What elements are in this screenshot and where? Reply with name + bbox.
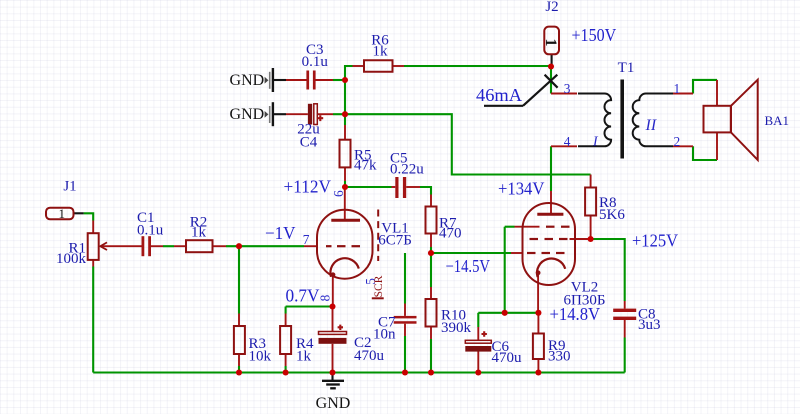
svg-text:330: 330 — [548, 348, 571, 364]
svg-text:II: II — [645, 117, 657, 134]
svg-text:+112V: +112V — [284, 177, 331, 197]
svg-text:SCR: SCR — [373, 275, 385, 297]
svg-text:T1: T1 — [618, 60, 635, 76]
svg-text:GND: GND — [230, 72, 265, 89]
svg-text:0.7V: 0.7V — [286, 286, 320, 306]
svg-text:1k: 1k — [373, 44, 389, 60]
svg-text:1: 1 — [59, 206, 66, 221]
svg-text:+134V: +134V — [498, 179, 544, 199]
svg-text:6: 6 — [331, 190, 346, 197]
svg-text:470: 470 — [439, 226, 462, 242]
svg-text:1: 1 — [674, 81, 681, 96]
svg-text:J2: J2 — [545, 0, 558, 15]
svg-text:6П30Б: 6П30Б — [564, 292, 606, 308]
svg-text:470u: 470u — [354, 348, 385, 364]
svg-text:+150V: +150V — [572, 25, 617, 45]
svg-text:10n: 10n — [373, 326, 396, 342]
svg-text:0.22u: 0.22u — [390, 161, 424, 177]
svg-text:J1: J1 — [63, 178, 76, 194]
svg-text:390k: 390k — [441, 320, 472, 336]
svg-text:47k: 47k — [354, 158, 377, 174]
svg-text:1k: 1k — [296, 349, 312, 365]
svg-text:4: 4 — [564, 134, 571, 149]
svg-text:C4: C4 — [300, 135, 318, 151]
svg-text:10k: 10k — [249, 349, 272, 365]
svg-text:2: 2 — [674, 134, 681, 149]
svg-text:46mA: 46mA — [476, 85, 522, 105]
svg-text:BA1: BA1 — [765, 113, 790, 128]
svg-text:GND: GND — [230, 106, 265, 123]
svg-text:1: 1 — [542, 39, 559, 47]
svg-text:3: 3 — [564, 81, 571, 96]
svg-text:+125V: +125V — [632, 231, 678, 251]
svg-text:3u3: 3u3 — [638, 317, 661, 333]
svg-text:8: 8 — [318, 294, 333, 301]
svg-text:−1V: −1V — [265, 223, 295, 243]
svg-text:7: 7 — [303, 232, 310, 247]
svg-text:1k: 1k — [191, 224, 207, 240]
svg-text:−14.5V: −14.5V — [446, 256, 491, 276]
svg-text:5K6: 5K6 — [599, 207, 625, 223]
svg-text:6С7Б: 6С7Б — [378, 232, 412, 248]
svg-text:GND: GND — [316, 395, 351, 412]
svg-text:0.1u: 0.1u — [302, 54, 329, 70]
svg-text:0.1u: 0.1u — [137, 222, 164, 238]
svg-text:470u: 470u — [492, 350, 523, 366]
svg-text:100k: 100k — [56, 251, 87, 267]
